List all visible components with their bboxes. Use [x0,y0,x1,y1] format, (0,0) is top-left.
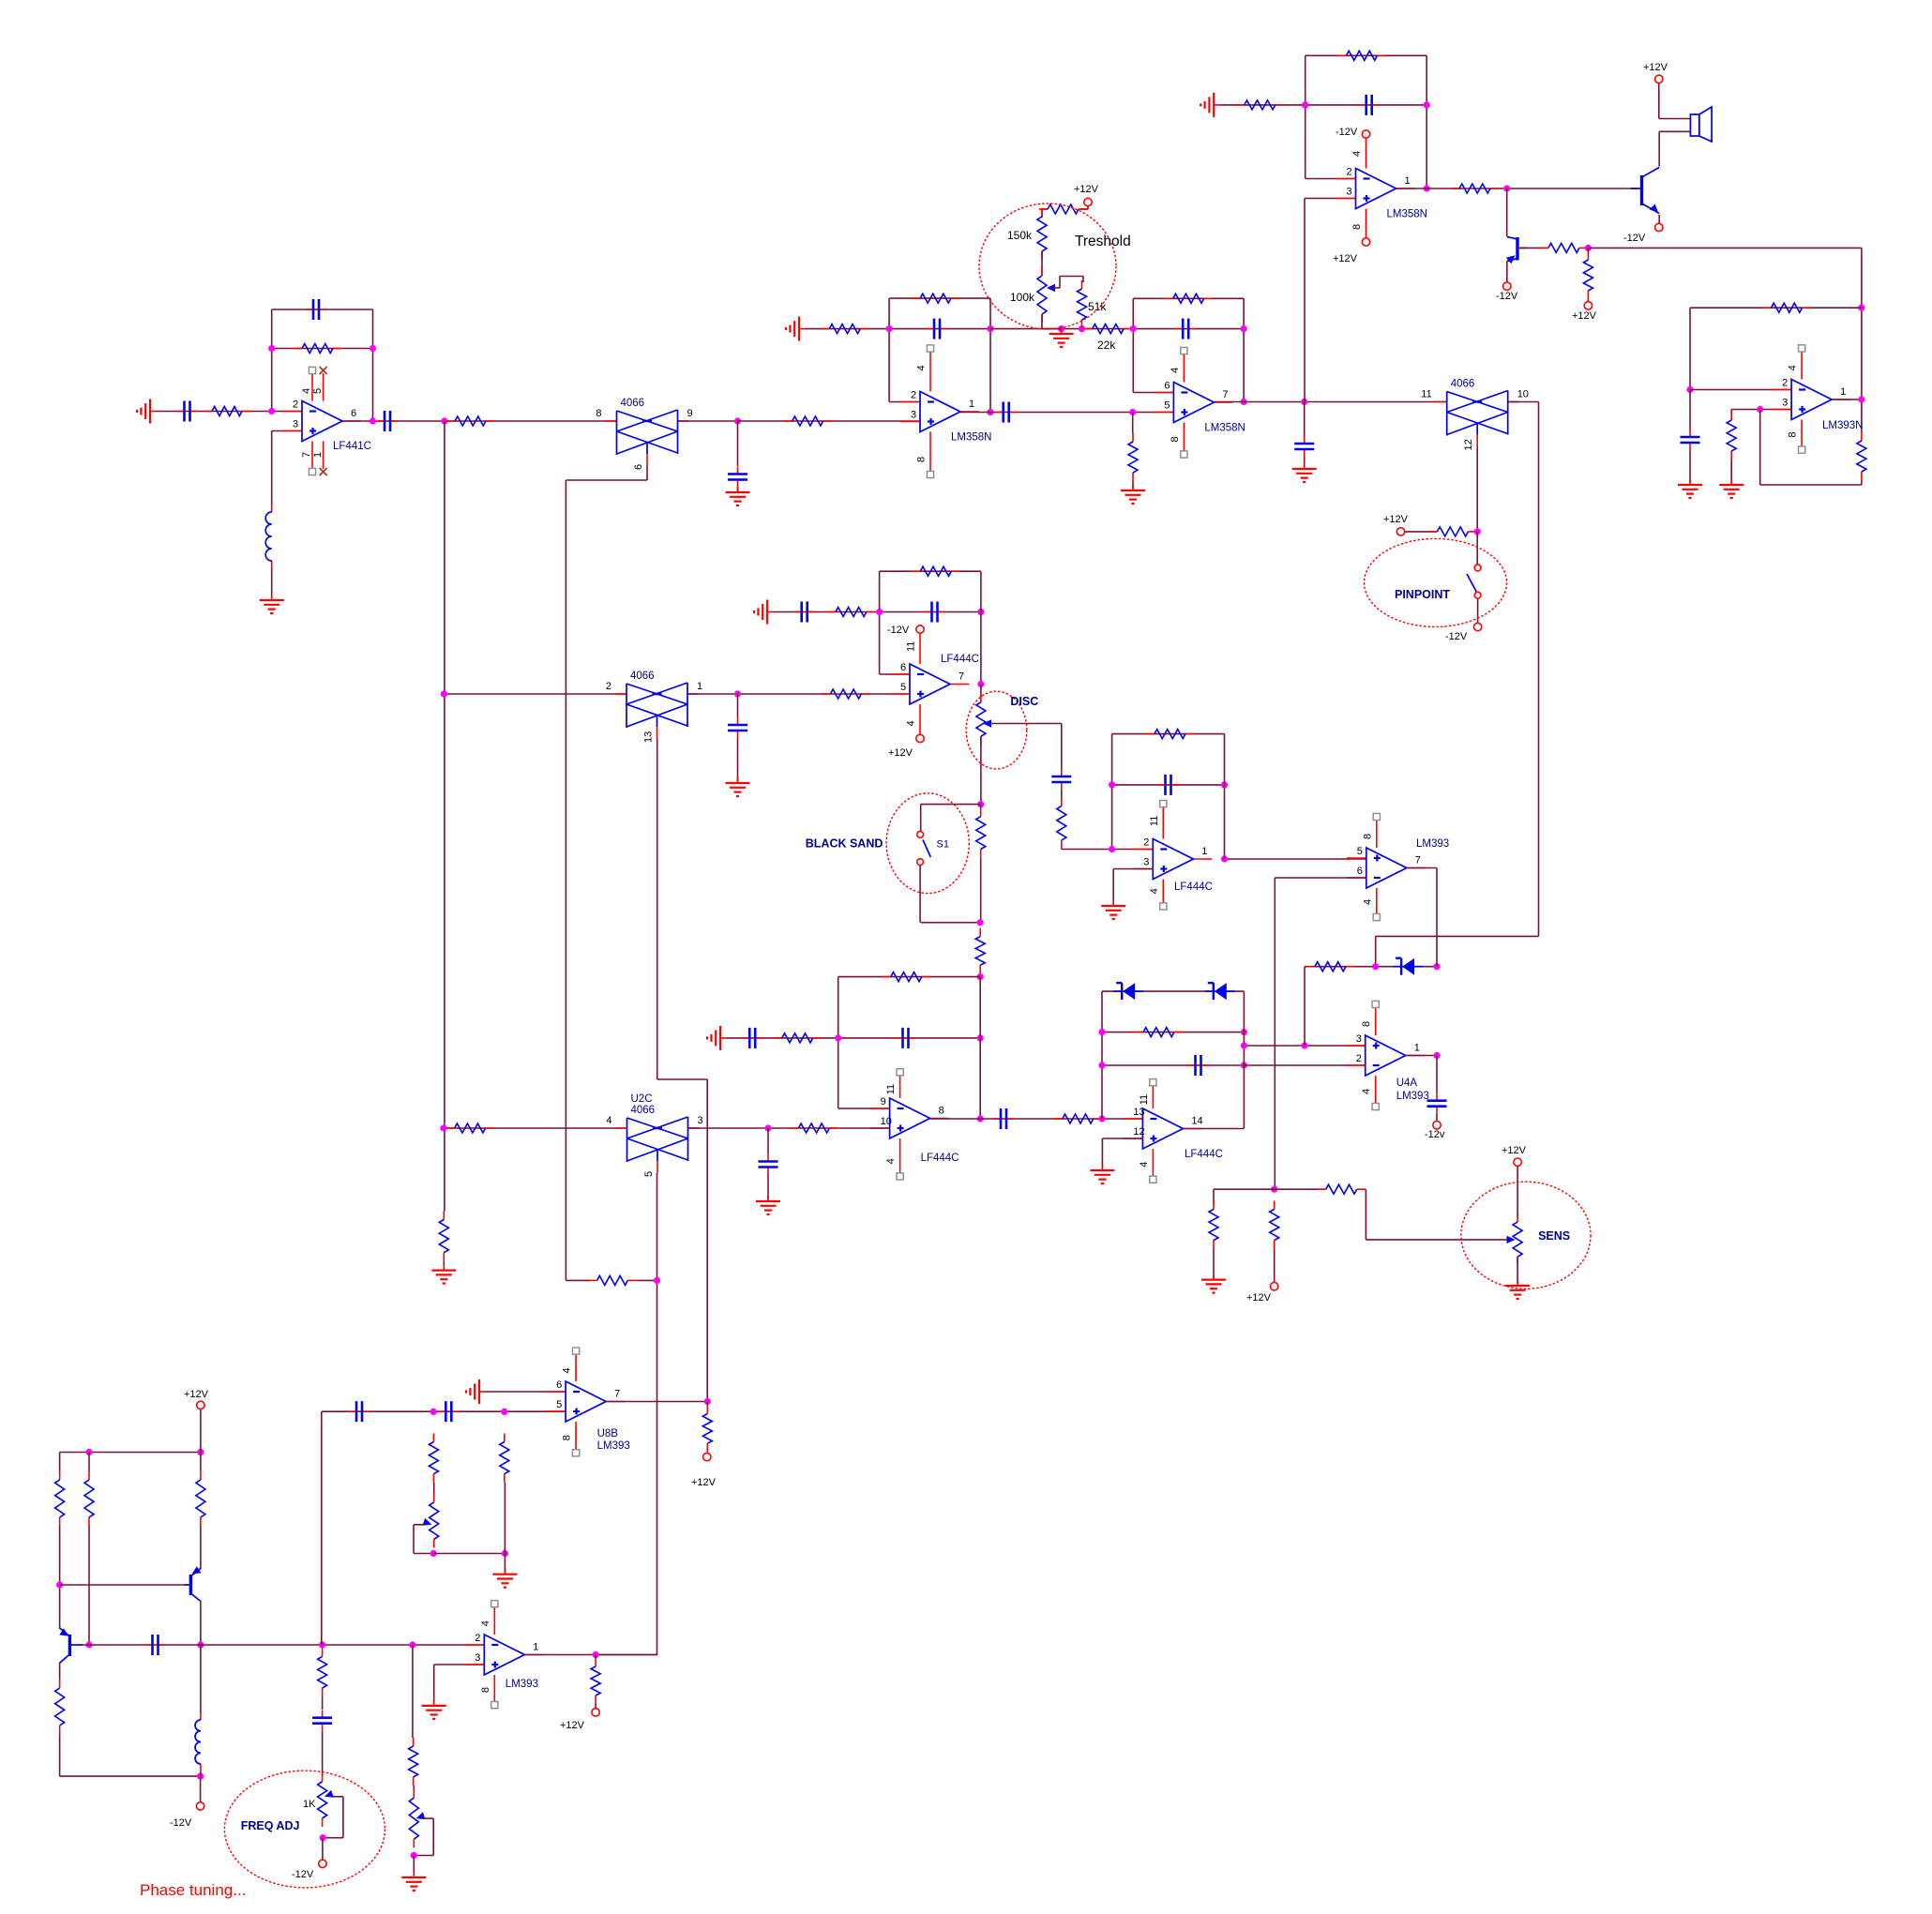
label Q1 -12V label [1623,233,1646,244]
resistor bus resistor R4 [439,1212,448,1261]
capacitor cap C21 [1051,769,1071,790]
op-amp U7B LF444C [870,1098,949,1138]
node treshold node B [1058,325,1064,332]
svg-text:4: 4 [906,720,917,726]
U3B LM358N V+ pin wire [1183,351,1185,383]
label U4B LM393 pin 6 number [1357,866,1363,877]
svg-text:10: 10 [1517,389,1529,400]
resistor stage1 feedback resistor R2 [294,344,341,354]
svg-text:-12V: -12V [1336,127,1358,138]
svg-text:U2C: U2C [631,1093,653,1105]
ground C8 ground [1292,463,1317,482]
wire treshold bottom row [990,328,1133,330]
wire DISC branch vertical [1061,724,1063,772]
resistor series resistor R21 [822,689,869,699]
analog switch U2C 4066 [616,1117,700,1173]
node P3 bottom node [430,1550,437,1557]
label R17 +12V label [1572,310,1597,322]
U7C LF444C V+ pin wire [1152,1082,1154,1108]
wire P4 ground lead [413,1856,415,1876]
wire U7C fb right vertical [1243,991,1245,1128]
capacitor stage3 fb cap C7 [1175,319,1196,339]
U7A LF444C V- pin wire [919,704,921,739]
svg-text:LM393: LM393 [1416,838,1449,850]
capacitor cap C19 [1427,1093,1447,1114]
resistor resistor R41 [55,1680,65,1734]
label SENS +12V label [1502,1145,1527,1156]
wire control resistor to node [636,1279,657,1281]
wire cap to ground [737,488,739,492]
resistor resistor R46 [409,1738,418,1786]
label U2D 4066 pin 11 number [1421,389,1431,400]
resistor resistor R20 [1857,432,1866,480]
U6 LM393N V+ pin wire [1801,348,1803,379]
ground U7C pin12 ground [1090,1165,1114,1183]
label U4A LM393 pin 2 number [1356,1053,1362,1064]
wire stage3 fb left vertical [1132,298,1134,392]
label U8B LM393 top power pin number [562,1367,573,1373]
svg-text:11: 11 [885,1084,897,1094]
svg-text:6: 6 [900,662,906,673]
svg-text:3: 3 [1356,1033,1362,1045]
node rail node 2 [197,1449,204,1455]
resistor stage2 fb top resistor R8 [912,294,959,303]
node stage2 fb right node [987,325,993,332]
node 4066#3 out node [734,690,741,697]
resistor pinpoint resistor R12 [1428,527,1476,536]
svg-text:2: 2 [475,1633,480,1644]
wire 100k wiper run [1052,277,1083,289]
op-amp U3B LM358N [1154,383,1232,423]
node U2C out node [764,1124,771,1131]
wire Q1 emitter lead [1658,215,1660,223]
node stage4 fb left node [1302,101,1308,108]
svg-text:100k: 100k [1010,291,1035,304]
label U1 LF441C pin 3 number [293,419,298,430]
DISC wiper arrow [983,719,991,727]
wire U7B fb top row [838,976,980,978]
label U1 LF441C designator [333,441,371,452]
resistor resistor R42 [318,1648,327,1696]
svg-text:3: 3 [475,1652,480,1664]
ground LM393bot pin3 ground [422,1700,446,1719]
svg-text:S1: S1 [937,839,949,851]
wire LM393bot pin3 run [434,1665,485,1704]
label pinpoint -12V label [1445,631,1468,642]
power terminal R37 +12V terminal [1271,1283,1278,1290]
wire comparator right vertical [1861,248,1863,399]
svg-text:7: 7 [614,1389,620,1400]
label stage4 -12V label [1336,127,1358,138]
transistor Q4 [60,1628,83,1663]
label R45 +12V label [691,1477,717,1488]
label FREQ ADJ title [241,1819,300,1832]
switch contact pinpoint contact 2 [1474,592,1481,598]
label BLACK SAND title [806,837,883,851]
resistor series resistor R28 [1054,1114,1102,1123]
S1 blade [923,840,930,858]
node 4066#1 out node [734,417,741,424]
label U5A LM358N pin 1 number [1405,175,1411,187]
svg-text:LM393: LM393 [1396,1091,1429,1102]
label U1 LF441C pin 6 number [351,408,356,419]
label U4A designator [1396,1078,1418,1089]
resistor comparator fb resistor R18 [1763,303,1811,312]
inductor search coil L1 [265,505,272,568]
capacitor U7C fb cap C18 [1188,1055,1209,1076]
node Q3 base node [56,1581,63,1588]
label U7A LF444C bottom power pin number [906,720,917,726]
label U8B LM393 pin 7 number [614,1389,620,1400]
label U7D LF444C designator [1174,882,1213,893]
wire FREQ ADJ to -12V [322,1838,324,1860]
pin terminal U3B LM358N top power pin [1181,347,1187,354]
resistor resistor R27 [774,1033,822,1043]
label U4A LM393 designator [1396,1091,1429,1102]
pin terminal U9 LM393 bottom power pin [491,1702,498,1709]
label U3A LM358N designator [951,432,991,444]
svg-text:4: 4 [1362,899,1373,905]
wire U7C out row [1183,1128,1244,1130]
svg-text:2: 2 [911,390,916,401]
label U7A -12V label [887,625,910,636]
capacitor cap C22 [145,1635,166,1655]
wire 4066#1 control run [566,466,647,1280]
pin terminal U7D LF444C top power pin [1160,801,1167,807]
wire U4A pin2 row [1244,1064,1365,1066]
resistor resistor R45 [702,1406,712,1453]
label U1 pin5 number [312,388,324,394]
resistor resistor R17 [1583,251,1592,299]
wire 4066#3 in row [444,693,626,695]
wire 4066#2 in cap drop [1304,402,1306,437]
label PINPOINT title [1395,588,1450,601]
resistor U7D fb resistor R33 [1146,730,1194,739]
label U9 LM393 pin 2 number [475,1633,480,1644]
Q3 collector arrow [192,1566,202,1574]
wire R20 top lead [1861,399,1863,432]
svg-text:4: 4 [885,1158,897,1164]
svg-text:4066: 4066 [630,671,655,682]
label U7C LF444C designator [1185,1149,1223,1160]
wire stage2 fb mid row [805,328,990,330]
svg-text:22k: 22k [1097,339,1116,352]
power terminal treshold +12V terminal [1084,198,1092,205]
node stage1 out node [370,417,376,424]
svg-text:8: 8 [1788,431,1799,437]
FREQ ADJ wiper arrow [325,1790,334,1798]
svg-text:1: 1 [1840,386,1846,398]
wire stage1 feedback mid row [272,348,373,350]
label U2C 4066 designator [631,1093,653,1105]
svg-text:5: 5 [1357,846,1363,857]
wire C8 to ground [1304,457,1306,467]
ground U8B pin6 ground [466,1379,485,1404]
svg-text:4: 4 [1788,365,1799,370]
svg-text:3: 3 [698,1115,703,1126]
node sens row node [1271,1186,1277,1193]
transistor Q3 [185,1569,201,1602]
svg-text:LM393: LM393 [597,1440,630,1452]
wire U2C control run [596,1173,657,1655]
resistor resistor R39 [84,1471,94,1526]
svg-text:2: 2 [293,399,298,411]
resistor stage4 fb resistor R13 [1338,51,1386,60]
U5A LM358N V+ pin wire [1366,134,1367,169]
wire R46 to pot [413,1786,415,1792]
node 4066#3 in node [441,690,447,697]
pinpoint switch blade [1467,574,1477,593]
node U7B fb top right node [977,973,984,980]
wire P4 wiper run [414,1818,433,1855]
wire U8B out row [606,1401,707,1403]
svg-text:LF444C: LF444C [921,1153,959,1164]
switch contact S1 contact 1 [917,832,924,838]
P4 wiper arrow [416,1812,426,1819]
op-amp U6 LM393N [1772,380,1850,420]
pin terminal U1 pin4 terminal [309,367,315,373]
svg-text:FREQ ADJ: FREQ ADJ [241,1819,300,1832]
svg-text:8: 8 [1351,224,1363,230]
power terminal pinpoint -12V terminal [1473,623,1481,630]
label R47 +12V label [560,1720,585,1731]
label U4A LM393 top power pin number [1361,1021,1372,1027]
svg-text:3: 3 [293,419,298,430]
U7A LF444C V+ pin wire [919,629,921,664]
node FREQ ADJ bottom node [320,1834,326,1841]
node hysteresis node 1 [1372,963,1379,970]
P3 wiper arrow [422,1518,431,1526]
resistor U7A fb resistor R22 [912,566,959,576]
resistor control resistor R5 [589,1275,637,1285]
label U7A +12V label [888,747,913,759]
node long row node 1 [197,1641,204,1648]
svg-text:12: 12 [1133,1126,1144,1138]
node U8B out node [704,1398,711,1405]
label U2D 4066 pin 12 number [1463,439,1474,450]
label osc -12V label [170,1817,192,1829]
node stage4 fb right node [1424,101,1430,108]
svg-text:PINPOINT: PINPOINT [1395,588,1450,601]
wire 4066#2 control run [1476,447,1478,532]
node Q4 base node [85,1641,92,1648]
wire Q4 emitter bottom [60,1734,201,1776]
wire stage1 pin3 down [271,431,273,599]
label U2C 4066 label [631,1105,656,1116]
wire R45 top lead [706,1402,708,1407]
node stage3 pin5 node [1129,409,1136,415]
svg-text:14: 14 [1191,1116,1202,1127]
wire 4066#1 out to node [678,420,738,422]
svg-text:SENS: SENS [1538,1229,1570,1243]
op-amp U3A LM358N [900,392,979,432]
wire U7C fb res row [1102,1032,1244,1033]
resistor resistor R23 [827,608,875,617]
node P3 row node [502,1550,508,1557]
label U7A LF444C pin 7 number [958,671,964,683]
label S1 designator [937,839,949,851]
svg-text:8: 8 [562,1435,573,1440]
wire U7C pin12 run [1102,1138,1142,1168]
node coil -12V node [197,1773,204,1780]
label U7B LF444C designator [921,1153,959,1164]
label U2B 4066 pin 2 number [606,681,611,692]
resistor Q2 base resistor R16 [1540,243,1588,252]
capacitor cap C8 [1294,436,1314,457]
svg-text:4: 4 [1361,1089,1372,1094]
svg-text:+12V: +12V [1333,253,1358,264]
op-amp U4A LM393 [1346,1035,1425,1076]
capacitor cap C25 [438,1401,459,1422]
wire Q4 emitter run [59,1663,61,1680]
ground U7B ground [707,1026,726,1050]
resistor stage2 fb resistor R7 [821,324,868,334]
wire P3 ground lead [504,1554,506,1574]
pin terminal U4A LM393 bottom power pin [1372,1103,1379,1109]
wire pulldown to ground [1132,481,1134,489]
ground R19 ground [1719,479,1743,498]
U3A LM358N V+ pin wire [929,349,931,392]
node U4A pin3 left node [1241,1042,1247,1048]
wire C17 to ground [767,1175,769,1200]
wire U7B fb left vertical [838,977,839,1108]
wire sens row [1214,1188,1326,1190]
resistor resistor R24 [976,808,986,858]
ground U7A ground [754,600,773,625]
ground C17 ground [756,1196,780,1214]
label U2C 4066 pin 4 number [606,1115,611,1126]
power terminal U5A LM358N bottom power terminal [1362,238,1369,246]
ground R36 ground [1201,1274,1226,1293]
svg-text:8: 8 [596,408,601,419]
wire stage3 fb top row [1133,297,1244,299]
capacitor stage4 fb cap C9 [1359,95,1380,115]
label U9 LM393 pin 3 number [475,1652,480,1664]
wire U7D pin3 run [1113,869,1153,905]
wire SENS pot top [1517,1166,1518,1216]
label U2A 4066 label [621,398,645,409]
capacitor stage1 feedback cap C2 [306,299,326,320]
label U9 LM393 pin 1 number [533,1642,538,1653]
wire R43 bottom [433,1483,435,1497]
label 1K value [303,1799,316,1810]
node black sand bottom node [977,919,984,926]
node U8B row node 1 [430,1409,437,1415]
power terminal speaker +12V terminal [1655,75,1663,83]
svg-text:+12V: +12V [1572,310,1597,322]
analog switch U2A 4066 [606,410,689,466]
label U2A 4066 pin 9 number [687,408,693,419]
node U4A pin3 mid node [1301,1042,1307,1048]
label U2B 4066 pin 1 number [697,681,702,692]
label U2C 4066 pin 3 number [698,1115,703,1126]
wire U7B out row [930,1118,1143,1120]
svg-text:6: 6 [556,1379,562,1391]
U3A LM358N V- pin wire [929,432,931,475]
wire stage1 feedback top [272,309,373,310]
U1 pin5 wire [323,373,325,401]
svg-text:9: 9 [687,408,693,419]
no-connect U1 pin5 no-connect [320,367,327,374]
wire SENS pot bottom [1517,1257,1518,1284]
svg-text:4: 4 [606,1115,611,1126]
label 150k value [1007,229,1033,242]
label U5A LM358N designator [1387,209,1427,220]
label U3A LM358N pin 3 number [911,410,916,421]
diode diode D1 [1113,983,1143,1000]
wire driver base drop [1506,188,1508,236]
wire C19 to -12v [1436,1114,1438,1122]
svg-text:BLACK SAND: BLACK SAND [806,837,883,851]
resistor stage2 input resistor R6 [784,416,832,426]
svg-text:8: 8 [1170,436,1181,442]
svg-text:U4A: U4A [1396,1078,1418,1089]
resistor U7B fb resistor R26 [883,972,930,982]
label U2C 4066 pin 5 number [643,1171,655,1177]
op-amp U9 LM393 [464,1635,543,1675]
annotation ellipse DISC [966,691,1027,769]
power terminal U4A -12v terminal [1433,1122,1441,1129]
annotation ellipse BLACK SAND [886,793,969,894]
wire pinpoint switch top lead [1476,532,1478,565]
node control node x700 [654,1277,660,1284]
svg-text:6: 6 [1357,866,1363,877]
wire Q3 base row [60,1584,187,1586]
resistor input resistor R1 [204,407,250,416]
capacitor cap C12 [794,602,815,623]
pin terminal U7C LF444C top power pin [1150,1079,1156,1086]
wire comparator pin2 cap drop [1689,390,1691,430]
resistor series resistor R30 [790,1123,838,1133]
U1 pin4 wire [311,373,313,401]
label Phase tuning note [140,1881,246,1899]
wire U7B fb right vertical [979,977,981,1119]
label U6 LM393N top power pin number [1788,365,1799,370]
node U7B out node [977,1115,984,1122]
label U7C LF444C pin 13 number [1133,1107,1144,1118]
resistor potentiometer P3 [430,1494,439,1548]
node long row node 2 [319,1641,325,1648]
wire mid branch bottom [88,1526,90,1645]
label U3B LM358N pin 5 number [1164,400,1170,412]
pin terminal U6 LM393N bottom power pin [1799,446,1805,453]
label U4B LM393 top power pin number [1362,834,1373,839]
annotation ellipse PINPOINT [1365,538,1507,626]
label U2B 4066 pin 13 number [643,731,655,743]
U7B LF444C V+ pin wire [899,1072,901,1098]
wire U7C diode row [1102,990,1244,992]
wire U4A pin3 row [1244,1045,1365,1047]
ground coil ground [260,595,284,613]
wire Q2 emitter lead [1506,262,1508,282]
svg-text:4: 4 [1170,368,1181,373]
resistor series resistor R3 [446,416,494,426]
node U7D fb cap right node [1221,781,1228,788]
resistor resistor R19 [1727,412,1736,460]
wire U8B pin6 row [485,1391,566,1393]
wire C11 to ground [737,738,739,781]
svg-text:1: 1 [969,399,974,410]
wire 4066#1 out cap drop [737,421,739,466]
node stage1 pin2 node [268,408,275,414]
node U7C res right node [1241,1029,1247,1035]
wire pinpoint +12V row [1405,531,1437,533]
power terminal U7A LF444C top power terminal [916,625,924,633]
capacitor cap C23 [312,1711,332,1731]
node 4066#2 in node [1301,399,1307,405]
wire hysteresis vertical [1304,967,1306,1046]
svg-text:3: 3 [911,410,916,421]
